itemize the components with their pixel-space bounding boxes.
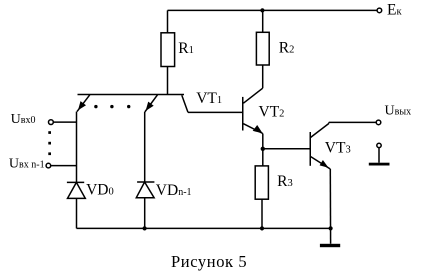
- transistor VT3 base bar: [309, 132, 311, 166]
- svg-text:R2: R2: [279, 39, 295, 56]
- node junction dot rail / VT3 emitter: [329, 226, 333, 230]
- label R3: [277, 173, 293, 190]
- terminal Uvh n-1 circle and lead: [46, 163, 76, 168]
- label Uvh0: [11, 112, 36, 127]
- terminal Uvh0 circle and lead: [49, 120, 77, 125]
- label VD0: [86, 182, 114, 199]
- label VT2: [259, 103, 285, 120]
- label R2: [279, 39, 295, 56]
- resistor R1: [161, 33, 175, 67]
- label VT1: [196, 90, 222, 107]
- terminal Ek circle: [377, 8, 382, 13]
- transistor VT2 base bar: [242, 97, 244, 131]
- wire R1 top lead: [167, 10, 169, 32]
- svg-text:Uвх n-1: Uвх n-1: [9, 156, 45, 171]
- svg-text:Uвых: Uвых: [385, 104, 412, 119]
- transistor VT1 emitter 2 arrow: [145, 95, 158, 112]
- ground symbol bottom: [320, 244, 340, 247]
- transistor VT1 multi-emitter base bar: [78, 94, 185, 96]
- wire right input column below VDn-1: [144, 198, 146, 229]
- wire R3 bottom lead: [261, 199, 263, 228]
- wire right input column: [144, 112, 146, 182]
- svg-text:VT2: VT2: [259, 103, 285, 120]
- node ellipsis dots between emitters: [94, 105, 130, 108]
- svg-text:Рисунок 5: Рисунок 5: [171, 252, 247, 271]
- wire VT1 collector to VT2 base: [188, 111, 243, 113]
- svg-text:R1: R1: [178, 40, 194, 57]
- wire bottom ground rail: [77, 227, 331, 229]
- label VDn-1: [156, 182, 192, 199]
- wire VT2 emitter to VT3 base: [263, 148, 311, 150]
- transistor VT3 emitter arrow: [311, 157, 331, 244]
- svg-text:VT3: VT3: [325, 139, 351, 156]
- svg-text:VD0: VD0: [86, 182, 114, 199]
- diode VDn-1: [136, 182, 154, 198]
- node junction dot rail / R3: [260, 226, 264, 230]
- node ellipsis dots between inputs: [48, 131, 51, 155]
- label caption Risunok 5: [171, 252, 247, 271]
- svg-text:R3: R3: [277, 173, 293, 190]
- wire R2 top lead: [262, 10, 264, 32]
- label Uvh n-1: [9, 156, 45, 171]
- label Uvyh: [385, 104, 412, 119]
- wire R1 bottom lead to VT1 base: [167, 67, 169, 95]
- transistor VT3 collector to output: [311, 122, 377, 137]
- node junction dot rail / VDn-1: [143, 226, 147, 230]
- label R1: [178, 40, 194, 57]
- node junction dot VT2 emitter / R3 / VT3 base: [261, 147, 265, 151]
- label Ek: [387, 1, 402, 18]
- resistor R2: [256, 32, 269, 65]
- label VT3: [325, 139, 351, 156]
- node junction dot top rail / R2: [260, 8, 264, 12]
- transistor VT1 emitter 1 arrow: [77, 95, 90, 112]
- svg-text:Uвх0: Uвх0: [11, 112, 36, 127]
- transistor VT2 emitter arrow: [243, 124, 262, 166]
- transistor VT1 collector diagonal: [182, 95, 188, 112]
- terminal Uvyh circle: [376, 120, 381, 125]
- svg-text:VT1: VT1: [196, 90, 222, 107]
- wire left input column: [76, 112, 78, 183]
- svg-text:Ек: Ек: [387, 1, 402, 18]
- resistor R3: [255, 166, 268, 199]
- wire top supply rail: [168, 9, 378, 11]
- svg-text:VDn-1: VDn-1: [156, 182, 192, 199]
- wire left input column below VD0: [76, 198, 78, 228]
- ground terminal right: [369, 143, 390, 165]
- transistor VT2 collector: [243, 65, 262, 103]
- diode VD0: [67, 182, 85, 198]
